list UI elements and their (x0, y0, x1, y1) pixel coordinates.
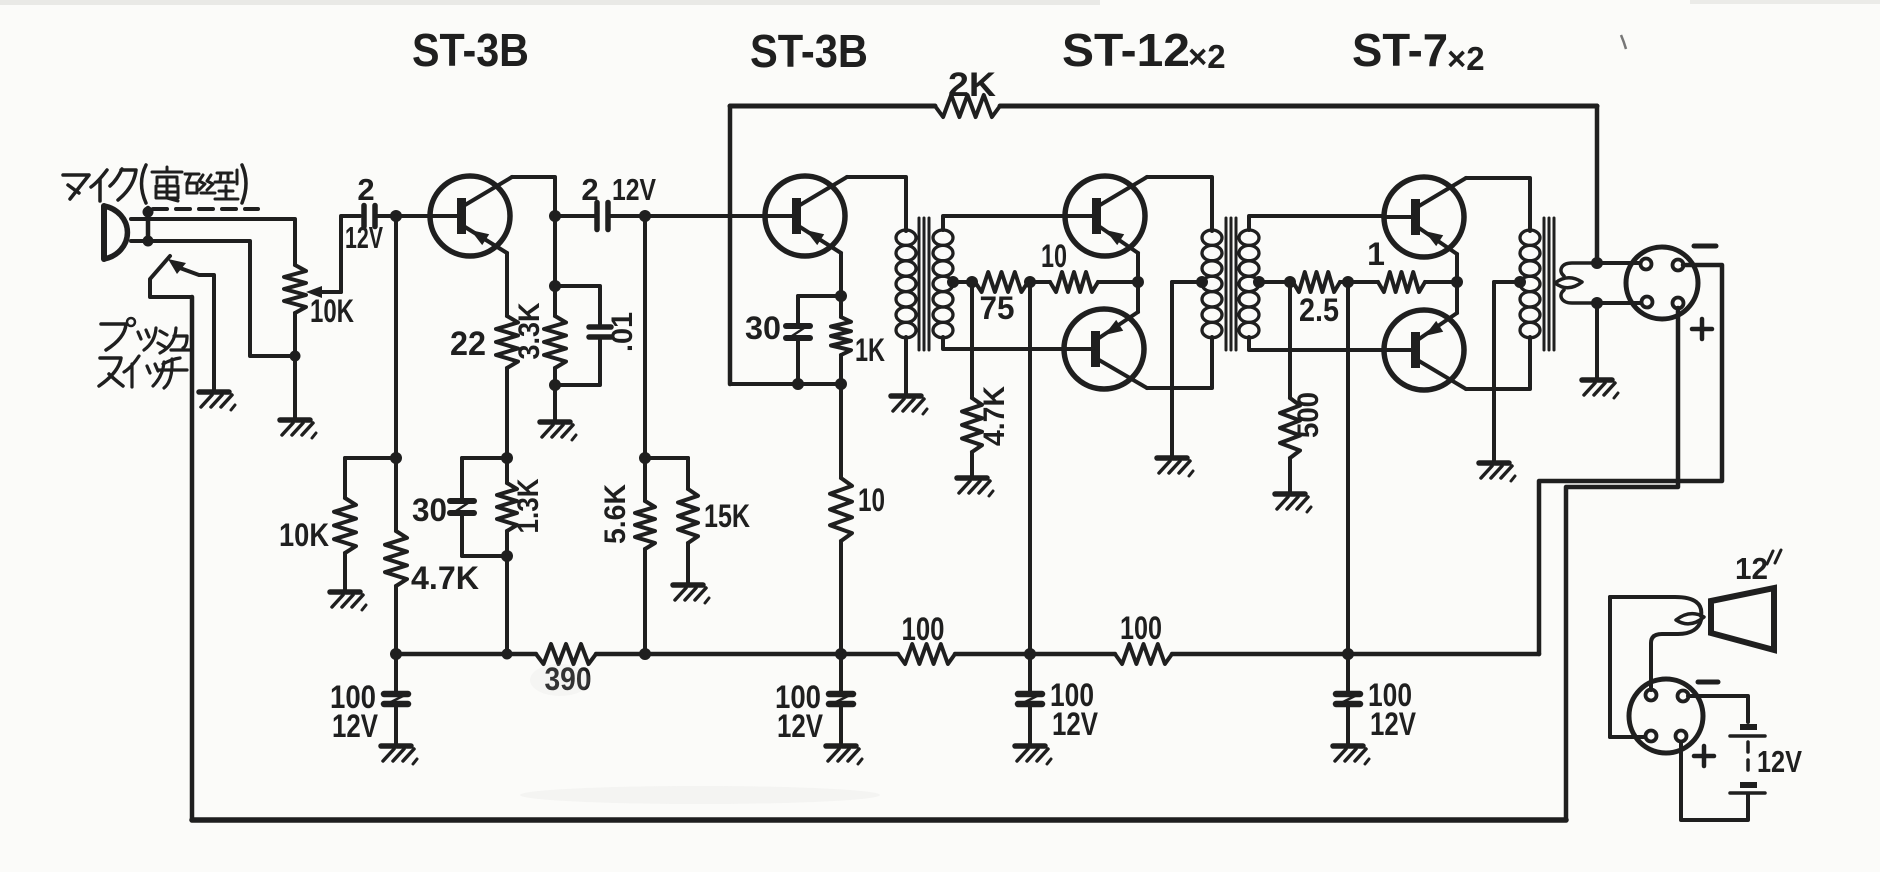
transformer T3 core (1544, 218, 1554, 350)
junction 5.6K top (639, 452, 651, 464)
label 1 (1367, 236, 1385, 272)
connector J2 speaker plug (1629, 679, 1703, 753)
capacitor 2/12V interstage (597, 203, 608, 230)
svg-text:75: 75 (980, 290, 1015, 326)
label 100 12V cap1 (330, 679, 379, 744)
svg-text:12V: 12V (1757, 744, 1802, 779)
label transformer type ST-12 x2 (1062, 24, 1226, 76)
wire bottom rail (192, 817, 1566, 823)
capacitor .01 (555, 286, 611, 385)
svg-text:ST-12: ST-12 (1062, 24, 1190, 76)
wire collector node to C2 (555, 214, 596, 218)
transistor Q6 (1383, 310, 1466, 390)
label minus J2 (1698, 680, 1718, 685)
wire J1 minus to bias rail (1539, 265, 1722, 654)
junction base bias node Q1 (390, 210, 402, 222)
ground 15K (673, 585, 709, 603)
svg-text:2: 2 (581, 172, 598, 207)
junction 500 node (1284, 276, 1296, 288)
wire tap lead (953, 280, 972, 284)
ground push switch (199, 392, 235, 410)
svg-text:5.6K: 5.6K (599, 484, 632, 544)
junction rail 5.6K (639, 648, 651, 660)
resistor 100 (decoupling 1) (898, 644, 955, 664)
wire T3 tap lead (1494, 282, 1520, 461)
wire bias rail segment 1 (396, 652, 536, 657)
ground cap #4 (1333, 746, 1369, 764)
junction Q1 collector node (549, 210, 561, 222)
junction 22 bottom (501, 452, 513, 464)
label 12V battery (1757, 744, 1802, 779)
wire J2 bottom loop (1681, 742, 1748, 820)
label 22 (450, 325, 486, 363)
junction mic top (143, 207, 154, 218)
label 2.5 (1299, 292, 1339, 328)
wire switch to bottom rail (190, 297, 195, 820)
wire Q3 emitter (1136, 253, 1140, 282)
junction rail Q2 (835, 648, 847, 660)
resistor 10 (Q2 emitter) (830, 384, 852, 654)
wire T2 tap lead (1172, 282, 1202, 456)
svg-text:4.7K: 4.7K (411, 560, 479, 596)
junction Q2 emitter node (835, 290, 847, 302)
wire pot to ground (293, 356, 297, 418)
wire T1 secondary top to Q3 base (943, 216, 1065, 230)
svg-text:.01: .01 (606, 312, 639, 352)
potentiometer 10K volume (284, 216, 360, 313)
wire secondary to J1 pins (1597, 263, 1640, 303)
capacitor 100uF/12V #4 (1336, 654, 1360, 744)
wire top rail left (730, 104, 935, 109)
wire Q4 collector to T2 (1147, 337, 1212, 388)
ground 10K bias (330, 592, 366, 610)
svg-text:15K: 15K (704, 498, 750, 534)
svg-text:10K: 10K (310, 293, 354, 329)
wire bias rail segment 2 (596, 652, 898, 657)
svg-text:12V: 12V (612, 172, 656, 207)
label 2 12V (C2) (581, 172, 656, 207)
capacitor 100uF/12V #2 (829, 654, 853, 744)
svg-text:4.7K: 4.7K (978, 386, 1011, 446)
transformer T2 primary coil (1202, 230, 1222, 338)
transformer T2 secondary coil (1239, 230, 1259, 338)
wire Q1 emitter down (505, 253, 509, 316)
wire 3.3K to ground (553, 385, 557, 420)
label plus J2 (1694, 746, 1714, 766)
junction pot bottom (290, 351, 301, 362)
label transformer type ST-3B (stage 1) (412, 24, 529, 76)
svg-text:1.3K: 1.3K (512, 478, 545, 533)
transistor Q5 (1383, 177, 1466, 257)
label 10 driver (1041, 238, 1067, 274)
resistor 1 (1348, 272, 1457, 292)
svg-text:12: 12 (1735, 551, 1768, 586)
ground T2 tap (1157, 458, 1193, 476)
wire mic bottom return (148, 241, 295, 356)
junction 3.3K top (549, 280, 561, 292)
wire bias line down (394, 216, 398, 458)
wire C1 to Q1 base (376, 214, 430, 218)
junction 2.5 out (1340, 276, 1354, 288)
microphone (dynamic) symbol (104, 206, 148, 259)
transistor Q4 (1063, 309, 1147, 389)
wire 15K link (645, 456, 688, 460)
svg-text:2K: 2K (948, 66, 996, 104)
svg-text:12V: 12V (777, 708, 824, 744)
wire Q2 emitter down (839, 253, 843, 296)
svg-text:100: 100 (902, 611, 945, 647)
ground T3 tap (1479, 463, 1515, 481)
label 30 (Q2) (745, 310, 781, 346)
label 30 (Q1) (412, 492, 447, 528)
junction secondary ground side (1591, 297, 1603, 309)
transformer T3 primary coil (1520, 230, 1540, 338)
wire bias rail segment 4 (1172, 652, 1539, 657)
label 12 inch (1735, 550, 1781, 586)
wire secondary to ground (1595, 303, 1599, 378)
junction C2 out (639, 210, 651, 222)
resistor 500 (1280, 282, 1300, 492)
transistor Q3 (1064, 176, 1147, 256)
svg-text:12V: 12V (332, 708, 379, 744)
wire Q6 collector to T3 (1466, 337, 1530, 389)
wire Q1 collector top (512, 177, 555, 216)
label 12V (C1) (345, 220, 383, 255)
wire feedback riser (728, 106, 733, 384)
wire speaker bottom (1651, 620, 1701, 690)
label 1K (855, 332, 885, 368)
label 5.6K (599, 484, 632, 544)
wire tap lead 2 (1259, 280, 1290, 284)
battery 12V (1730, 724, 1765, 793)
svg-text:2.5: 2.5 (1299, 292, 1339, 328)
wire feedback from rail (1595, 106, 1600, 263)
svg-text:500: 500 (1292, 392, 1325, 438)
wire collector node down (553, 216, 557, 286)
push switch arm (150, 256, 192, 297)
junction rail driver (1024, 648, 1036, 660)
wire Q6 emitter (1455, 282, 1459, 313)
junction bias divider (390, 452, 402, 464)
svg-text:2: 2 (357, 172, 374, 207)
shield dashed line (153, 207, 258, 211)
ground cap #2 (826, 746, 862, 764)
label 500 (1292, 392, 1325, 438)
resistor 2.5 (1293, 272, 1340, 292)
junction T2 secondary tap (1253, 276, 1265, 288)
label 100 12V cap2 (775, 679, 824, 744)
svg-text:ST-3B: ST-3B (412, 24, 529, 76)
label plus J1 (1692, 319, 1712, 339)
label 100 r2 (1120, 610, 1162, 646)
junction rail 1.3K (502, 649, 513, 660)
wire C2 to Q2 base (609, 214, 765, 218)
capacitor 30 (Q1 emitter bypass) (450, 458, 507, 556)
resistor 1.3K (497, 458, 517, 556)
resistor 22 (496, 316, 518, 368)
wire driver bias drop (1028, 282, 1032, 654)
label 100 12V cap4 (1368, 677, 1417, 742)
junction 75 out (1024, 276, 1036, 288)
svg-text:×2: ×2 (1188, 38, 1226, 75)
transformer T2 core (1226, 218, 1236, 350)
capacitor 30 (Q2 bypass) (786, 296, 841, 384)
label 10 (Q2) (858, 482, 885, 518)
label .01 (606, 312, 639, 352)
svg-text:3.3K: 3.3K (513, 302, 546, 359)
speaker voice coil loop (1676, 614, 1704, 624)
ground 4.7K driver (957, 478, 993, 496)
transformer T1 core (919, 218, 929, 350)
svg-text:10: 10 (1041, 238, 1067, 274)
junction rail left (390, 648, 402, 660)
wire pot bottom (293, 313, 297, 356)
svg-text:30: 30 (412, 492, 447, 528)
junction rail output (1342, 648, 1354, 660)
resistor 15K (678, 458, 698, 583)
wire to bias rail (505, 556, 509, 654)
resistor 2K feedback (935, 95, 1000, 117)
label 2 (C1) (357, 172, 374, 207)
ground 500 (1275, 494, 1311, 512)
junction T2 primary tap (1196, 276, 1208, 288)
resistor 75 (975, 272, 1028, 292)
label 100 r1 (902, 611, 945, 647)
label 4.7K driver (978, 386, 1011, 446)
junction tap node (966, 276, 978, 288)
junction feedback takeoff (1591, 257, 1603, 269)
wire bias rail segment 3 (955, 652, 1115, 657)
label 1.3K (512, 478, 545, 533)
junction 30 bottom (792, 378, 804, 390)
ground 3.3K (540, 422, 576, 440)
capacitor 100uF/12V #1 (384, 654, 408, 744)
label プッシュ / スイッチ (99, 318, 190, 388)
label transformer type ST-3B (stage 2) (750, 25, 868, 77)
label 3.3K (513, 302, 546, 359)
resistor 390 (536, 644, 596, 664)
wire J1 plus to battery rail (1566, 308, 1678, 820)
wire 5.6K feed (643, 216, 647, 458)
ground cap #3 (1015, 746, 1051, 764)
svg-text:ST-7: ST-7 (1352, 24, 1448, 76)
label 10K bias (279, 517, 329, 553)
junction T3 primary tap (1514, 276, 1526, 288)
ground cap #1 (381, 746, 417, 764)
svg-text:×2: ×2 (1447, 40, 1485, 77)
capacitor 100uF/12V #3 (1018, 654, 1042, 744)
resistor 1K (831, 296, 851, 384)
svg-text:10K: 10K (279, 517, 329, 553)
label 15K (704, 498, 750, 534)
wire top rail right (1000, 104, 1597, 109)
resistor 10K bias (334, 458, 356, 590)
transistor Q1 (429, 176, 512, 256)
ground volume pot (280, 420, 316, 438)
svg-text:ST-3B: ST-3B (750, 25, 868, 77)
wire divider top link (345, 456, 396, 460)
wire T1 primary bottom (904, 337, 908, 394)
label 75 (980, 290, 1015, 326)
wire T1 secondary bottom to Q4 base (943, 337, 1064, 349)
label minus J1 (1694, 244, 1716, 249)
wire Q2 collector to T1 (847, 177, 906, 231)
label 390 (545, 661, 592, 697)
junction output emitters (1451, 276, 1463, 288)
connector J1 output socket (1626, 247, 1698, 319)
wire T2 secondary top to Q5 (1249, 216, 1384, 230)
resistor 4.7K (driver bias) (962, 282, 982, 476)
svg-text:12V: 12V (1052, 706, 1099, 742)
wire T2 secondary bottom to Q6 (1249, 337, 1383, 350)
transformer T3 secondary loop (1555, 263, 1597, 303)
label 100 12V cap3 (1050, 677, 1099, 742)
svg-text:1K: 1K (855, 332, 885, 368)
resistor 100 (decoupling 2) (1115, 644, 1172, 664)
junction T1 center tap (947, 276, 959, 288)
transformer T1 primary coil (896, 230, 916, 338)
junction 1.3K bottom (462, 550, 513, 562)
label transformer type ST-7 x2 (1352, 24, 1485, 77)
wire output bias drop (1346, 282, 1350, 654)
resistor 5.6K (635, 458, 655, 654)
push switch contact with arrow (168, 259, 214, 390)
resistor 10 (driver) (1030, 272, 1138, 292)
wire 22 to node (505, 368, 509, 458)
junction 3.3K bottom (549, 379, 561, 391)
svg-text:10: 10 (858, 482, 885, 518)
junction 1K bottom (835, 378, 847, 390)
speaker horn 12 inch (1711, 588, 1774, 650)
junction mic bottom (143, 236, 154, 247)
wire J2 left pin to speaker (1610, 735, 1645, 739)
label 4.7K bias (411, 560, 479, 596)
svg-text:100: 100 (1120, 610, 1162, 646)
label 10K pot (310, 293, 354, 329)
wire speaker top (1610, 597, 1701, 737)
ground output secondary (1582, 380, 1618, 398)
transistor Q2 (764, 176, 847, 256)
svg-text:1: 1 (1367, 236, 1385, 272)
svg-text:12V: 12V (1370, 706, 1417, 742)
ground T1 primary (891, 396, 927, 414)
wire Q4 emitter (1136, 282, 1140, 312)
label マイク(電磁型) (63, 165, 246, 203)
svg-text:30: 30 (745, 310, 781, 346)
resistor 3.3K (544, 286, 566, 385)
wire J2 to battery plus (1688, 696, 1748, 722)
svg-text:22: 22 (450, 325, 486, 363)
label 2K (948, 66, 996, 104)
wire Q5 collector to T3 (1466, 178, 1530, 231)
wire feedback bottom link (730, 382, 841, 386)
wire mic top to volume pot (148, 219, 295, 265)
wire Q3 collector to T2 (1147, 177, 1212, 231)
capacitor 2/12V input coupling (364, 206, 375, 227)
junction driver emitters (1132, 276, 1144, 288)
resistor 4.7K bias (385, 458, 407, 654)
wire Q5 emitter (1455, 254, 1459, 282)
svg-text:12V: 12V (345, 220, 383, 255)
transformer T1 secondary coil (933, 230, 953, 338)
